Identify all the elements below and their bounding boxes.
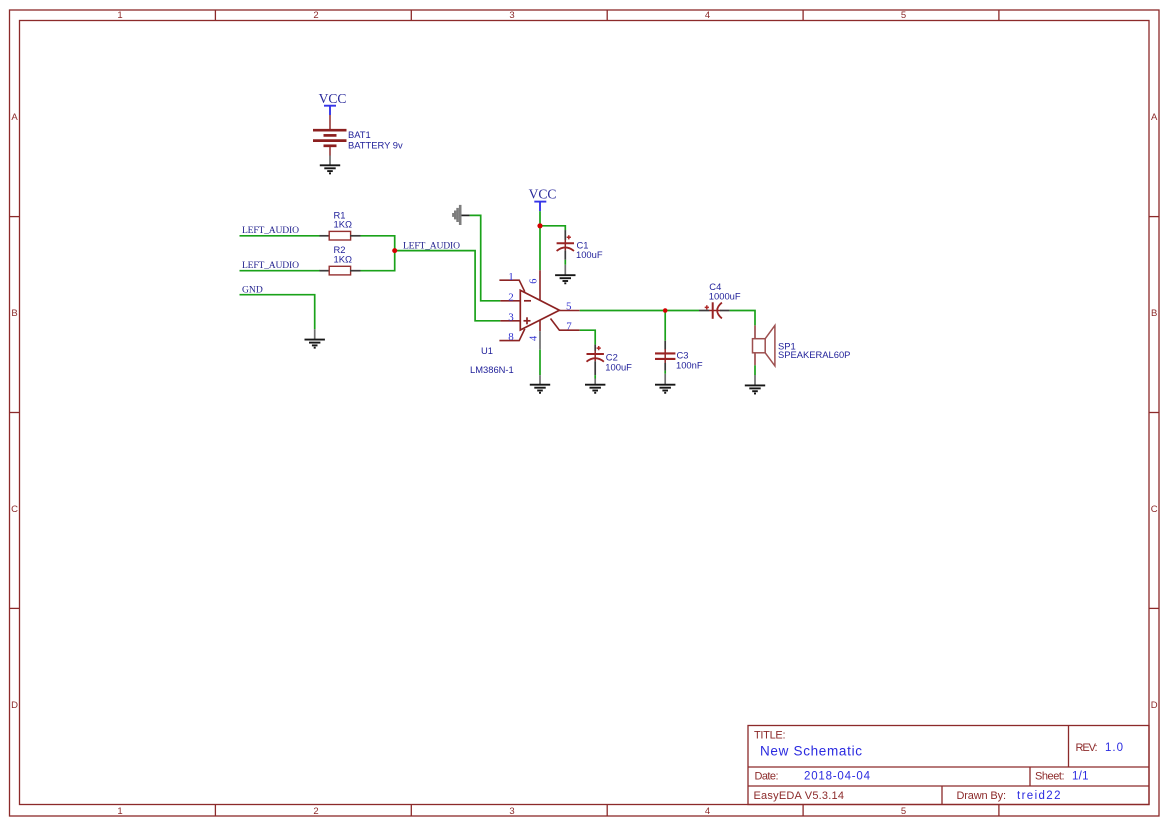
svg-text:A: A bbox=[11, 112, 18, 123]
svg-text:2: 2 bbox=[313, 806, 318, 817]
op-amp U1 pin 4 bbox=[539, 320, 541, 384]
capacitor C1 labels bbox=[576, 240, 603, 261]
wire pin 7 to C2 bbox=[580, 330, 596, 344]
resistor R1 bbox=[320, 231, 361, 240]
svg-text:1/1: 1/1 bbox=[1072, 771, 1089, 783]
svg-text:8: 8 bbox=[508, 331, 514, 343]
svg-text:6: 6 bbox=[528, 279, 539, 284]
frame row labels left bbox=[11, 112, 18, 711]
frame row ticks left bbox=[10, 217, 20, 609]
svg-text:1: 1 bbox=[508, 271, 514, 283]
op-amp U1 pin 1 bbox=[499, 280, 524, 292]
resistor R1 labels bbox=[334, 209, 352, 229]
svg-text:VCC: VCC bbox=[529, 187, 557, 202]
svg-text:1.0: 1.0 bbox=[1105, 742, 1123, 754]
frame row labels right bbox=[1151, 112, 1158, 711]
wire ground to op-amp pin 2 bbox=[470, 215, 501, 300]
wire LEFT_AUDIO to R1 bbox=[240, 235, 321, 237]
svg-text:3: 3 bbox=[509, 10, 514, 21]
wire VCC junction to C1 bbox=[540, 226, 565, 231]
ground (op-amp pin 4) bbox=[530, 385, 550, 393]
svg-text:1: 1 bbox=[117, 806, 122, 817]
svg-text:U1: U1 bbox=[481, 345, 493, 356]
svg-text:2018-04-04: 2018-04-04 bbox=[804, 771, 871, 783]
svg-text:3: 3 bbox=[508, 311, 514, 323]
svg-text:D: D bbox=[11, 700, 18, 711]
capacitor C1 bbox=[557, 230, 574, 275]
net label LEFT_AUDIO (middle) bbox=[403, 240, 460, 251]
capacitor C2 labels bbox=[605, 352, 632, 373]
title block Drawn By value bbox=[1017, 790, 1061, 802]
svg-text:1: 1 bbox=[117, 10, 122, 21]
svg-text:1000uF: 1000uF bbox=[709, 291, 741, 302]
svg-text:2: 2 bbox=[313, 10, 318, 21]
svg-text:C: C bbox=[11, 504, 18, 515]
svg-text:New Schematic: New Schematic bbox=[760, 744, 862, 759]
capacitor C3 labels bbox=[676, 350, 703, 371]
speaker SP1 bbox=[753, 325, 775, 385]
ground (C1) bbox=[555, 275, 575, 283]
svg-text:2: 2 bbox=[508, 291, 514, 303]
title block Drawn By label bbox=[957, 790, 1007, 802]
capacitor C2 bbox=[587, 345, 604, 385]
svg-text:1KΩ: 1KΩ bbox=[334, 219, 352, 230]
title block REV value bbox=[1105, 742, 1123, 754]
svg-text:Sheet:: Sheet: bbox=[1035, 771, 1065, 783]
wire R2 to junction bbox=[361, 251, 395, 271]
capacitor C4 labels bbox=[709, 281, 741, 302]
frame column labels top bbox=[117, 10, 906, 21]
wire LEFT_AUDIO to R2 bbox=[240, 270, 321, 272]
op-amp U1 pin number labels bbox=[508, 271, 572, 343]
ground (speaker) bbox=[745, 385, 765, 393]
net label LEFT_AUDIO (top) bbox=[242, 225, 299, 236]
resistor R2 bbox=[320, 266, 361, 275]
junction node LEFT_AUDIO bbox=[392, 248, 397, 253]
svg-text:C: C bbox=[1151, 504, 1158, 515]
frame column labels bottom bbox=[117, 806, 906, 817]
op-amp U1 pin 3 bbox=[500, 320, 520, 322]
speaker SP1 labels bbox=[778, 340, 850, 360]
wire C4 to speaker bbox=[730, 311, 755, 326]
frame column ticks top bbox=[215, 10, 999, 21]
junction node VCC bbox=[537, 223, 542, 228]
net flag VCC (battery) bbox=[319, 91, 347, 115]
op-amp U1 labels bbox=[470, 345, 514, 375]
svg-text:treid22: treid22 bbox=[1017, 790, 1061, 802]
resistor R2 labels bbox=[334, 244, 352, 264]
title block Sheet label bbox=[1035, 771, 1065, 783]
svg-text:100uF: 100uF bbox=[605, 362, 632, 373]
svg-text:7: 7 bbox=[566, 320, 572, 332]
svg-text:SPEAKERAL60P: SPEAKERAL60P bbox=[778, 349, 850, 360]
svg-text:B: B bbox=[1151, 308, 1157, 319]
frame column ticks bottom bbox=[215, 805, 999, 817]
title block Date value bbox=[804, 771, 871, 783]
ground (GND net) bbox=[305, 329, 325, 348]
svg-text:D: D bbox=[1151, 700, 1158, 711]
svg-text:1KΩ: 1KΩ bbox=[334, 254, 352, 265]
wire R1 to junction bbox=[361, 236, 395, 251]
title block REV label bbox=[1076, 742, 1098, 754]
svg-text:4: 4 bbox=[705, 10, 710, 21]
svg-text:B: B bbox=[11, 308, 17, 319]
battery BAT1 bbox=[313, 115, 347, 156]
op-amp U1 triangle bbox=[520, 290, 559, 330]
svg-text:3: 3 bbox=[509, 806, 514, 817]
svg-text:LM386N-1: LM386N-1 bbox=[470, 364, 514, 375]
capacitor C3 bbox=[655, 341, 675, 385]
title block TITLE label bbox=[754, 730, 786, 742]
title block title value bbox=[760, 744, 862, 759]
wire pin 5 to junction bbox=[580, 310, 666, 312]
ground (C3) bbox=[655, 385, 675, 393]
op-amp U1 pin 7 bbox=[551, 319, 580, 331]
wire VCC down to junction bbox=[539, 211, 541, 227]
wire junction down to C3 bbox=[664, 311, 666, 341]
wire junction to C4 bbox=[665, 310, 699, 312]
ground (C2) bbox=[585, 385, 605, 393]
op-amp U1 pin 5 bbox=[559, 310, 579, 312]
svg-text:LEFT_AUDIO: LEFT_AUDIO bbox=[403, 240, 460, 251]
svg-text:VCC: VCC bbox=[319, 91, 347, 106]
op-amp U1 pin 8 bbox=[499, 329, 524, 341]
svg-text:5: 5 bbox=[901, 10, 906, 21]
ground (battery) bbox=[320, 156, 340, 174]
svg-text:5: 5 bbox=[566, 301, 572, 313]
svg-text:4: 4 bbox=[705, 806, 710, 817]
svg-text:Date:: Date: bbox=[755, 771, 779, 783]
op-amp U1 pin 2 bbox=[500, 300, 520, 302]
title block Date label bbox=[755, 771, 779, 783]
net label GND bbox=[242, 284, 263, 295]
svg-text:GND: GND bbox=[242, 284, 263, 295]
svg-text:LEFT_AUDIO: LEFT_AUDIO bbox=[242, 225, 299, 236]
svg-text:4: 4 bbox=[528, 336, 539, 341]
junction node output bbox=[663, 308, 668, 313]
title block bbox=[748, 726, 1149, 805]
net label LEFT_AUDIO (bottom) bbox=[242, 260, 299, 271]
frame row ticks right bbox=[1149, 217, 1159, 609]
wire VCC junction down to pin 6 bbox=[539, 226, 541, 270]
capacitor C4 bbox=[699, 302, 730, 319]
svg-text:100uF: 100uF bbox=[576, 249, 603, 260]
svg-text:REV:: REV: bbox=[1076, 742, 1098, 754]
wire junction to op-amp pin 3 bbox=[395, 251, 501, 321]
battery BAT1 labels bbox=[348, 129, 403, 150]
svg-text:A: A bbox=[1151, 112, 1158, 123]
title block Sheet value bbox=[1072, 771, 1089, 783]
svg-text:5: 5 bbox=[901, 806, 906, 817]
title block EasyEDA version bbox=[754, 790, 845, 802]
svg-text:BATTERY 9v: BATTERY 9v bbox=[348, 139, 403, 150]
svg-text:Drawn By:: Drawn By: bbox=[957, 790, 1007, 802]
svg-text:100nF: 100nF bbox=[676, 360, 703, 371]
net flag VCC (op-amp) bbox=[529, 187, 557, 212]
wire GND net bbox=[240, 295, 315, 330]
svg-text:TITLE:: TITLE: bbox=[754, 730, 786, 742]
ground (rotated, op-amp pin 2) bbox=[453, 205, 469, 225]
op-amp U1 pin 6 bbox=[539, 270, 541, 300]
svg-text:EasyEDA V5.3.14: EasyEDA V5.3.14 bbox=[754, 790, 845, 802]
svg-text:LEFT_AUDIO: LEFT_AUDIO bbox=[242, 260, 299, 271]
